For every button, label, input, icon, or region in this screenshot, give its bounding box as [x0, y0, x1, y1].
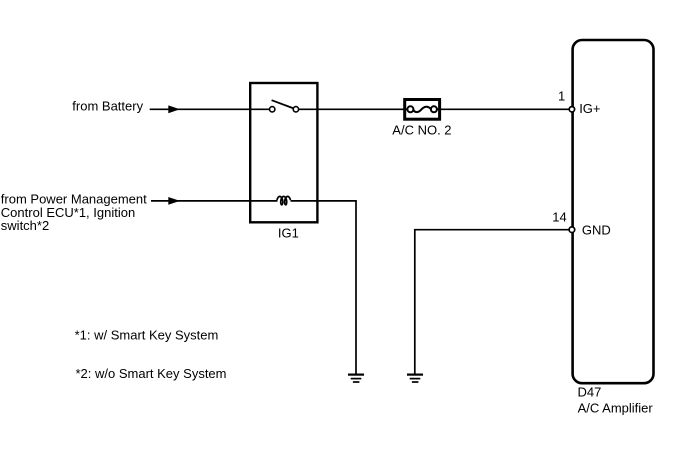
- svg-text:1: 1: [558, 89, 565, 104]
- fuse terminal circle left: [407, 106, 413, 112]
- arrowhead (ECU feed): [168, 197, 180, 205]
- svg-text:from Battery: from Battery: [72, 98, 143, 113]
- wire from Battery with arrowhead: [150, 108, 270, 110]
- wire coil to relay ground: [291, 201, 357, 374]
- relay IG1 box: [250, 83, 317, 222]
- svg-text:14: 14: [552, 210, 566, 225]
- pin 14 terminal: [569, 227, 575, 233]
- ground symbol (amplifier side): [407, 375, 423, 382]
- svg-text:GND: GND: [582, 223, 611, 238]
- relay switch contact circle left: [270, 107, 275, 112]
- svg-text:D47: D47: [578, 385, 602, 400]
- wire fuse to pin 1: [436, 108, 569, 110]
- svg-text:*1: w/ Smart Key System: *1: w/ Smart Key System: [75, 327, 219, 342]
- svg-text:switch*2: switch*2: [1, 218, 49, 233]
- relay coil: [277, 196, 290, 204]
- fuse terminal circle right: [431, 106, 437, 112]
- wire switch to fuse: [299, 108, 408, 110]
- svg-text:*2: w/o Smart Key System: *2: w/o Smart Key System: [76, 366, 227, 381]
- svg-text:IG+: IG+: [579, 101, 600, 116]
- wire from Power Management ECU with arrowhead: [151, 200, 278, 202]
- svg-text:IG1: IG1: [278, 226, 299, 241]
- relay switch contact circle right: [293, 107, 298, 112]
- A/C amplifier D47 body: [573, 40, 654, 383]
- ground symbol (relay side): [348, 375, 364, 382]
- fuse element wavy link: [413, 107, 431, 112]
- svg-text:A/C Amplifier: A/C Amplifier: [578, 400, 654, 415]
- pin 1 terminal: [569, 107, 574, 112]
- svg-text:A/C NO. 2: A/C NO. 2: [392, 123, 451, 138]
- fuse A/C NO. 2 box: [405, 100, 440, 120]
- wire pin 14 to amplifier ground: [415, 230, 569, 374]
- relay switch blade: [272, 100, 293, 108]
- arrowhead (battery feed): [168, 105, 180, 113]
